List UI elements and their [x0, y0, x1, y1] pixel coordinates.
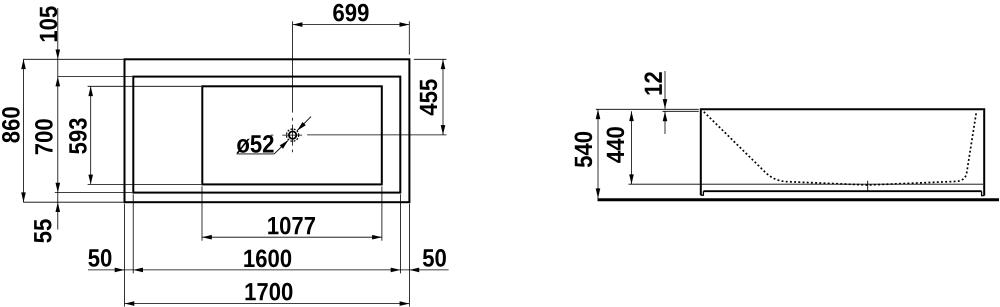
dim 540 line — [597, 109, 599, 198]
leader diagonal lower — [274, 141, 288, 154]
arrow 700 up — [56, 77, 61, 87]
dim 50-1600-50 line — [88, 269, 449, 271]
arrow 593 down — [88, 175, 93, 185]
tub right foot hook — [982, 191, 985, 195]
arrow 50L pointing right — [115, 268, 125, 273]
inner rim rectangle 1600x700 — [133, 77, 400, 193]
dim 440 text — [607, 127, 625, 163]
dim 593 line — [90, 86, 92, 184]
arrow 12 up — [663, 112, 668, 122]
dim 700 text — [35, 119, 53, 154]
arrow 860 down — [21, 192, 26, 202]
dim 440 line — [631, 111, 633, 184]
ext rim lower line 12-440 — [663, 110, 699, 112]
arrow 455 up — [441, 59, 446, 69]
dim 1077 line — [202, 236, 382, 238]
arrow 440 up — [629, 111, 634, 121]
arrow 12 down — [663, 99, 668, 109]
ext 699 left to drain — [292, 21, 294, 112]
ext inner-rim top left — [58, 76, 132, 78]
dim 699 text — [333, 4, 368, 22]
ext outer bottom-left vertical — [124, 204, 126, 307]
dim 699 line — [293, 24, 410, 26]
dim 1700 line — [125, 303, 410, 305]
ext inner-rim bottom-left vertical — [132, 194, 134, 273]
dim 593 text — [69, 118, 87, 153]
arrow 1077 left — [202, 235, 212, 240]
dim 1700 text — [245, 283, 292, 301]
arrow 700 down — [56, 183, 61, 193]
ext basin bottom-left vertical — [201, 186, 203, 240]
inner tub dotted profile — [704, 112, 977, 185]
arrow 50R pointing left — [409, 268, 419, 273]
ext basin bottom left — [88, 183, 202, 185]
floor ground line — [598, 198, 1000, 201]
leader arrowhead upper — [297, 122, 306, 131]
drain centerline horizontal — [271, 134, 274, 136]
dim 1600 text — [244, 250, 291, 268]
ext 455 bottom from drain — [307, 134, 446, 136]
dim 455 text — [420, 79, 437, 115]
dim 12 lower line — [664, 112, 666, 135]
ext tub inner bottom 440 — [629, 183, 984, 185]
arrow 593 up — [88, 86, 93, 96]
ext basin top left — [88, 85, 202, 87]
leader arrowhead lower — [280, 140, 289, 149]
basin rectangle 1077x593 — [202, 86, 381, 184]
dim 55 text — [34, 219, 51, 242]
ext basin bottom-right vertical — [381, 186, 383, 240]
ext outer bottom left — [23, 201, 123, 203]
drain inner circle — [289, 131, 296, 138]
dim 105 text — [40, 6, 58, 41]
ext 699 right — [408, 21, 410, 54]
arrow 540 down — [596, 188, 601, 198]
dim 860 text — [2, 107, 20, 142]
ext inner-rim bottom left — [55, 192, 132, 194]
arrow 699 right — [400, 22, 410, 27]
dim 12 text — [644, 72, 662, 94]
arrow 1600 left — [133, 268, 143, 273]
dim 860 line — [23, 59, 25, 202]
ext inner-rim bottom-right vertical — [400, 194, 402, 273]
arrow 860 up — [21, 59, 26, 69]
drain tick side view — [867, 181, 869, 191]
ext tub top to 540 — [596, 108, 699, 110]
dim 540 text — [575, 132, 593, 167]
arrow 1077 right — [372, 235, 382, 240]
arrow 699 left — [293, 22, 303, 27]
arrow 105 down — [56, 50, 61, 60]
leader diagonal upper — [297, 117, 311, 131]
arrow 540 up — [596, 109, 601, 119]
ext outer top left — [23, 58, 123, 60]
arrow 455 down — [441, 125, 446, 135]
dim 105-700-55 shared vertical line — [57, 8, 59, 230]
dim 455 line — [442, 59, 444, 135]
label diameter 52 — [236, 135, 273, 153]
outer rim rectangle 1700x860 — [125, 59, 410, 202]
tub left foot hook — [701, 191, 704, 195]
dim 50 left text — [88, 249, 111, 267]
arrow 1700 left — [125, 301, 135, 306]
arrow 440 down — [629, 174, 634, 184]
dim 50 right text — [423, 249, 446, 267]
drain outer circle (dashed) — [287, 129, 299, 141]
tub outline left-top-right — [701, 109, 985, 195]
tub apron bottom line — [703, 190, 981, 192]
arrow 1700 right — [400, 301, 410, 306]
arrow 1600 right — [391, 268, 401, 273]
dim 1077 text — [268, 217, 315, 235]
dim 12 upper line — [664, 71, 666, 109]
leader underline — [237, 153, 275, 155]
ext outer bottom-right vertical — [408, 204, 410, 307]
drain centerline vertical — [292, 118, 294, 121]
ext 455 top — [414, 58, 447, 60]
arrow 55 up — [56, 202, 61, 212]
